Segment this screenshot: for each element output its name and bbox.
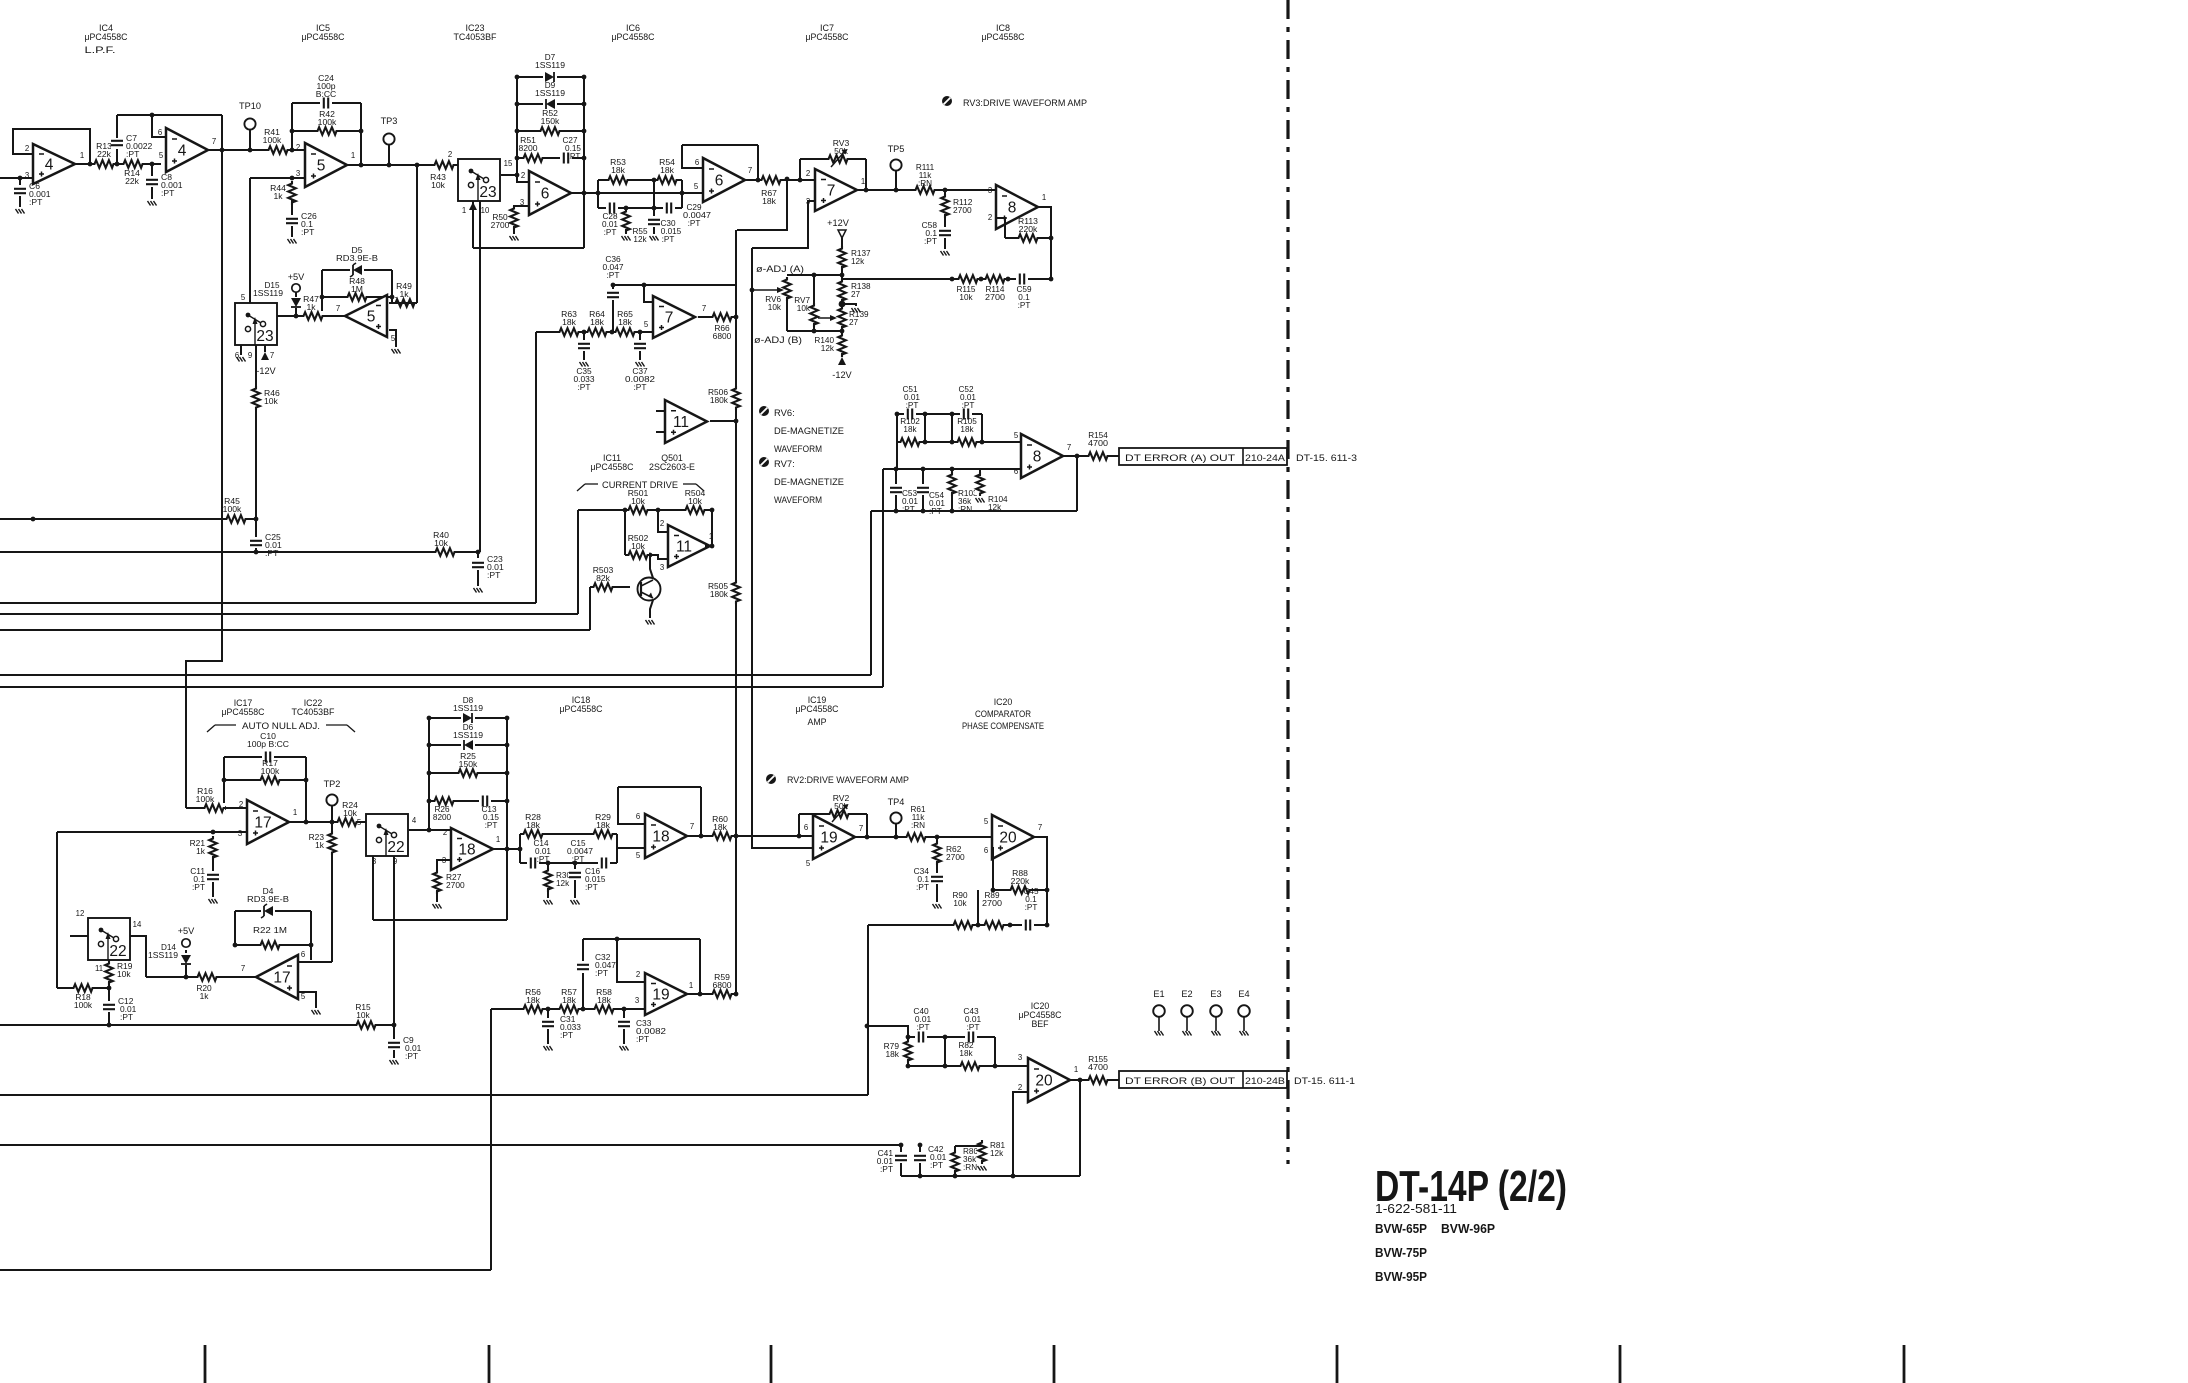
op-amp IC6a (6) xyxy=(520,171,571,215)
label R139 xyxy=(849,310,869,327)
op-amp IC8b (8) xyxy=(1021,434,1071,478)
resistor R104 xyxy=(975,472,985,496)
junction xyxy=(505,847,510,852)
resistor R48 xyxy=(345,276,369,302)
wire feedback xyxy=(1076,456,1078,511)
svg-text:μPC4558C: μPC4558C xyxy=(302,32,345,42)
power arrow +12V xyxy=(838,230,846,238)
wire xyxy=(922,495,924,511)
label IC20 BEF xyxy=(1019,1001,1063,1029)
wire IC6b feedback top xyxy=(682,144,758,146)
wire top feedback IC4b xyxy=(117,114,222,116)
wire bus R45 xyxy=(0,518,256,520)
op-amp IC11b (11) xyxy=(668,525,713,567)
svg-text:E2: E2 xyxy=(1181,989,1192,999)
junction xyxy=(923,412,928,417)
analog switch IC23 (23) section a xyxy=(458,159,500,201)
junction xyxy=(798,178,803,183)
capacitor C10 xyxy=(247,731,289,763)
svg-text:1k: 1k xyxy=(196,846,206,856)
svg-text:B:CC: B:CC xyxy=(316,89,337,99)
wire xyxy=(653,227,655,234)
junction xyxy=(573,861,578,866)
junction xyxy=(680,191,685,196)
label R105 xyxy=(957,417,977,434)
wire IC20a output down xyxy=(1034,837,1047,925)
svg-text:+5V: +5V xyxy=(178,926,195,936)
junction xyxy=(582,330,587,335)
svg-text:2: 2 xyxy=(988,213,992,222)
wire stack row xyxy=(517,157,584,159)
junction xyxy=(638,330,643,335)
test point TP3 xyxy=(381,116,398,145)
svg-text:12k: 12k xyxy=(556,879,570,888)
wire xyxy=(547,863,549,872)
resistor R60 xyxy=(710,814,734,841)
svg-text:DT-15. 611-3: DT-15. 611-3 xyxy=(1296,453,1357,463)
svg-text:22: 22 xyxy=(109,943,126,960)
svg-text:5: 5 xyxy=(806,859,811,868)
label D5 xyxy=(336,245,378,263)
svg-text:2: 2 xyxy=(636,970,640,979)
wire xyxy=(900,1163,902,1176)
wire stack row xyxy=(517,103,584,105)
capacitor xyxy=(598,857,610,869)
svg-text:1: 1 xyxy=(351,151,355,160)
junction xyxy=(710,544,715,549)
wire xyxy=(895,469,897,485)
label R115 xyxy=(957,285,976,302)
terminal E2 xyxy=(1181,989,1193,1031)
resistor R57 xyxy=(557,987,581,1014)
svg-text:TP10: TP10 xyxy=(239,101,261,111)
wire pin2 xyxy=(617,939,645,982)
junction xyxy=(894,509,899,514)
wire xyxy=(612,285,614,290)
wire stack right rail xyxy=(506,718,508,920)
junction xyxy=(359,129,364,134)
resistor R501 xyxy=(626,488,650,515)
svg-text:+5V: +5V xyxy=(288,272,305,282)
wire xyxy=(653,180,655,216)
resistor R505 xyxy=(731,580,741,604)
op-amp IC7a (7) xyxy=(806,169,865,211)
svg-text:7: 7 xyxy=(748,166,752,175)
svg-text::PT: :PT xyxy=(902,505,915,514)
label D15 xyxy=(253,281,283,298)
svg-text:100k: 100k xyxy=(223,504,242,514)
wire xyxy=(291,226,293,237)
svg-text:μPC4558C: μPC4558C xyxy=(560,704,604,714)
label R138 xyxy=(851,282,871,299)
label R505 xyxy=(708,581,729,599)
wire upper ladder xyxy=(598,179,682,181)
wire IC18a output xyxy=(491,848,520,850)
resistor R102 xyxy=(898,437,922,447)
junction xyxy=(1075,454,1080,459)
wire R23 chain xyxy=(331,822,333,962)
junction xyxy=(415,163,420,168)
junction xyxy=(756,178,761,183)
svg-text:TP2: TP2 xyxy=(324,779,341,789)
svg-text:10k: 10k xyxy=(688,496,703,506)
wire stub xyxy=(656,431,665,433)
svg-text:BVW-65P: BVW-65P xyxy=(1375,1221,1427,1236)
wire RV3 feedback xyxy=(800,158,866,160)
svg-text:5: 5 xyxy=(241,293,246,302)
capacitor xyxy=(207,871,219,883)
junction xyxy=(290,148,295,153)
svg-text:TP4: TP4 xyxy=(888,797,905,807)
wire xyxy=(108,960,110,966)
svg-text:10k: 10k xyxy=(768,303,782,312)
label Q501 header xyxy=(649,453,695,472)
resistor R42 xyxy=(315,109,339,136)
capacitor xyxy=(542,1018,554,1030)
label IC7 header xyxy=(806,23,849,42)
resistor R154 xyxy=(1086,451,1110,461)
wire switch 23b to R45 node xyxy=(255,345,257,538)
svg-text:2700: 2700 xyxy=(985,293,1005,302)
resistor R58 xyxy=(592,987,616,1014)
wire xyxy=(547,1009,549,1019)
svg-text:BVW-95P: BVW-95P xyxy=(1375,1269,1427,1284)
wire xyxy=(185,950,187,953)
resistor R25 xyxy=(456,751,480,778)
resistor R82 xyxy=(958,1061,982,1071)
wire R82 row xyxy=(908,1065,1028,1067)
wire xyxy=(391,270,393,303)
op-amp IC19a (19) xyxy=(813,815,863,859)
svg-text:10k: 10k xyxy=(797,304,811,313)
label D7 xyxy=(535,53,565,70)
label C35 xyxy=(574,366,595,392)
junction xyxy=(950,440,955,445)
wire xyxy=(951,492,953,511)
wire xyxy=(547,1029,549,1044)
svg-text:DE-MAGNETIZE: DE-MAGNETIZE xyxy=(774,476,844,487)
terminal +5V xyxy=(292,284,300,292)
wire xyxy=(954,1146,956,1154)
wire down to bus 5 xyxy=(882,469,884,687)
wire IC8b output xyxy=(1063,455,1119,457)
svg-text::RN: :RN xyxy=(918,179,932,188)
wire xyxy=(393,1025,395,1040)
junction xyxy=(899,1143,904,1148)
op-amp IC17a (17) xyxy=(238,800,297,844)
svg-text:22k: 22k xyxy=(97,149,112,159)
junction xyxy=(812,329,817,334)
svg-text:3: 3 xyxy=(238,829,242,838)
svg-text:5: 5 xyxy=(1014,431,1019,440)
svg-text::RN: :RN xyxy=(963,1163,977,1172)
svg-text:5: 5 xyxy=(984,817,989,826)
junction xyxy=(546,861,551,866)
wire xyxy=(212,882,214,897)
junction xyxy=(656,508,661,513)
wire IC19a output xyxy=(855,836,992,838)
wire D4 feedback xyxy=(235,910,311,912)
test point TP5 xyxy=(888,144,905,171)
svg-text:100k: 100k xyxy=(74,1000,93,1010)
wire xyxy=(700,787,702,836)
potentiometer RV2 xyxy=(827,804,851,822)
wire xyxy=(185,965,187,977)
junction xyxy=(935,835,940,840)
wire to IC18b pin5 xyxy=(617,847,645,849)
op-amp IC4b (4) xyxy=(158,128,216,172)
adjustment screw icon xyxy=(759,406,769,416)
capacitor xyxy=(1022,919,1034,931)
label R104 xyxy=(988,495,1008,512)
wire xyxy=(477,552,479,558)
svg-text:5: 5 xyxy=(636,851,641,860)
svg-text:DE-MAGNETIZE: DE-MAGNETIZE xyxy=(774,425,844,436)
svg-text:BVW-96P: BVW-96P xyxy=(1441,1221,1495,1236)
svg-text:4: 4 xyxy=(412,816,417,825)
ground xyxy=(580,362,589,367)
wire stack left rail xyxy=(516,77,518,175)
wire feedback IC4a xyxy=(13,129,90,164)
svg-text:18: 18 xyxy=(458,842,475,859)
svg-text:5: 5 xyxy=(159,151,164,160)
wire xyxy=(589,587,591,630)
wire xyxy=(841,299,843,310)
svg-text:100k: 100k xyxy=(261,766,280,776)
junction xyxy=(427,828,432,833)
op-amp IC18b (18) xyxy=(645,814,694,858)
svg-text:11: 11 xyxy=(676,539,692,556)
svg-text::PT: :PT xyxy=(662,235,675,244)
svg-text::PT: :PT xyxy=(606,270,619,280)
wire xyxy=(291,200,293,216)
svg-text:3: 3 xyxy=(988,186,992,195)
label C28 xyxy=(602,212,618,237)
wire bus R15 xyxy=(0,1024,394,1026)
junction xyxy=(515,173,520,178)
wire xyxy=(951,469,953,476)
capacitor xyxy=(1016,273,1028,285)
svg-text:1-622-581-11: 1-622-581-11 xyxy=(1375,1202,1457,1216)
wire xyxy=(924,414,926,442)
label C54 xyxy=(929,491,945,516)
ground xyxy=(390,1060,399,1065)
terminal E3 xyxy=(1210,989,1222,1031)
resistor R103 xyxy=(947,472,957,496)
wire xyxy=(577,510,579,614)
label C33 xyxy=(636,1018,666,1044)
power arrow -12V xyxy=(838,357,846,365)
svg-text:2: 2 xyxy=(443,828,447,837)
svg-text:5: 5 xyxy=(301,992,306,1001)
wire xyxy=(977,890,979,925)
svg-text:7: 7 xyxy=(665,310,674,327)
wire bus 2 xyxy=(0,613,578,615)
svg-text:7: 7 xyxy=(859,824,863,833)
ground xyxy=(392,349,401,354)
wire pin3 xyxy=(437,860,451,873)
wire xyxy=(900,1145,902,1153)
svg-text::PT: :PT xyxy=(577,382,590,392)
ground xyxy=(510,236,519,241)
junction xyxy=(290,129,295,134)
diode D7 xyxy=(543,71,557,83)
resistor R45 xyxy=(223,496,248,524)
svg-text::PT: :PT xyxy=(966,1022,979,1032)
svg-text:RV7:: RV7: xyxy=(774,458,795,469)
svg-text:COMPARATOR: COMPARATOR xyxy=(975,709,1031,719)
junction xyxy=(734,834,739,839)
svg-text:18: 18 xyxy=(652,829,669,846)
wire down to bus 4 xyxy=(870,511,872,675)
svg-text:2700: 2700 xyxy=(982,899,1002,908)
junction xyxy=(150,113,155,118)
wire bus 7 xyxy=(0,1094,868,1096)
svg-text::PT: :PT xyxy=(916,882,929,892)
power arrow -12V xyxy=(261,352,269,360)
svg-text:2: 2 xyxy=(521,171,525,180)
resistor R139 xyxy=(837,306,847,330)
junction xyxy=(387,163,392,168)
wire step down to bus xyxy=(867,925,869,1095)
wire xyxy=(798,814,800,836)
analog switch IC22 (22) section a xyxy=(366,814,408,856)
wire xyxy=(757,145,759,180)
label C27 xyxy=(562,136,581,161)
capacitor xyxy=(527,857,539,869)
wiper arrow RV6 xyxy=(752,287,784,293)
wire lower ladder xyxy=(520,862,617,864)
resistor R502 xyxy=(626,533,650,560)
junction xyxy=(107,1023,112,1028)
wire xyxy=(624,510,626,555)
junction xyxy=(320,295,325,300)
resistor R66 xyxy=(710,312,734,322)
label R112 xyxy=(953,197,973,215)
resistor R50 xyxy=(509,206,519,230)
svg-text::PT: :PT xyxy=(906,401,919,410)
svg-text:6: 6 xyxy=(636,812,640,821)
svg-text::PT: :PT xyxy=(962,401,975,410)
svg-text:7: 7 xyxy=(690,822,694,831)
svg-text:RV3:DRIVE WAVEFORM AMP: RV3:DRIVE WAVEFORM AMP xyxy=(963,98,1087,109)
junction xyxy=(840,329,845,334)
wire stub into switch 22b xyxy=(70,935,88,937)
svg-text::PT: :PT xyxy=(585,883,598,892)
svg-text:19: 19 xyxy=(652,987,669,1004)
svg-text:6: 6 xyxy=(301,950,305,959)
wire xyxy=(108,981,110,988)
wire IC6b output xyxy=(745,179,815,181)
wire IC7a output xyxy=(857,189,996,191)
wire xyxy=(866,814,868,837)
svg-text:8: 8 xyxy=(1008,200,1017,217)
wire R90 row xyxy=(868,924,1047,926)
svg-text::PT: :PT xyxy=(880,1164,893,1174)
svg-text::PT: :PT xyxy=(161,188,175,198)
op-amp IC5a (5) xyxy=(296,143,355,187)
junction xyxy=(248,148,253,153)
label RV7 note xyxy=(774,458,844,505)
svg-text::PT: :PT xyxy=(572,855,585,864)
wire xyxy=(582,939,584,961)
wire xyxy=(907,1059,909,1066)
label C58 xyxy=(922,220,938,246)
wire bus 1 xyxy=(0,602,536,604)
svg-text:TP3: TP3 xyxy=(381,116,398,126)
wire C40 row xyxy=(908,1036,995,1038)
svg-text:R22 1M: R22 1M xyxy=(253,925,287,935)
svg-text:10: 10 xyxy=(481,206,490,215)
label C9 xyxy=(403,1035,422,1061)
adjustment screw icon xyxy=(942,96,952,106)
junction xyxy=(950,467,955,472)
wire R88 feedback xyxy=(993,889,1047,891)
resistor R47 xyxy=(301,294,325,321)
wire xyxy=(841,353,843,357)
op-amp IC18a (18) xyxy=(442,828,500,870)
capacitor xyxy=(577,961,589,973)
svg-text:18k: 18k xyxy=(762,196,777,206)
label C34 xyxy=(914,866,930,892)
ground xyxy=(622,236,631,241)
svg-text:ø-ADJ (A): ø-ADJ (A) xyxy=(756,264,804,274)
wire xyxy=(625,208,627,213)
svg-text:2: 2 xyxy=(660,519,664,528)
wire bus 3 xyxy=(0,629,590,631)
capacitor xyxy=(965,1031,977,1043)
label R90 xyxy=(952,891,967,908)
svg-text:L.P.F.: L.P.F. xyxy=(85,45,116,55)
resistor R88 xyxy=(1008,868,1032,895)
label C29 xyxy=(683,203,711,228)
wire xyxy=(234,911,236,945)
svg-text:10k: 10k xyxy=(959,293,973,302)
svg-text:WAVEFORM: WAVEFORM xyxy=(774,494,822,505)
label C11 xyxy=(190,866,205,892)
svg-text:11: 11 xyxy=(673,414,689,431)
resistor R53 xyxy=(606,157,630,185)
svg-text:6: 6 xyxy=(804,823,808,832)
analog switch IC23 (23) section b xyxy=(235,303,277,345)
label R15 xyxy=(355,1002,371,1020)
wire pin2 xyxy=(658,510,668,532)
svg-text:3: 3 xyxy=(25,171,29,180)
junction xyxy=(710,508,715,513)
resistor R61 xyxy=(904,832,928,842)
wire xyxy=(813,323,815,331)
svg-text:27: 27 xyxy=(849,318,859,327)
wire xyxy=(681,180,683,208)
svg-text:220k: 220k xyxy=(1011,876,1030,886)
capacitor xyxy=(634,340,646,352)
capacitor xyxy=(915,1031,927,1043)
svg-text:20: 20 xyxy=(999,830,1017,847)
svg-text:AMP: AMP xyxy=(807,717,826,727)
resistor R24 xyxy=(335,800,359,827)
svg-text:ø-ADJ (B): ø-ADJ (B) xyxy=(754,335,802,345)
svg-text::PT: :PT xyxy=(1018,301,1031,310)
wire upper ladder xyxy=(520,833,617,835)
svg-text:10k: 10k xyxy=(356,1010,370,1020)
svg-text:RV6:: RV6: xyxy=(774,407,795,418)
ground xyxy=(209,899,218,904)
svg-text:μPC4558C: μPC4558C xyxy=(806,32,849,42)
wire xyxy=(436,890,438,902)
junction xyxy=(976,923,981,928)
wire C53 row / IC8b pin6 xyxy=(883,468,1021,470)
svg-text:6: 6 xyxy=(158,128,162,137)
